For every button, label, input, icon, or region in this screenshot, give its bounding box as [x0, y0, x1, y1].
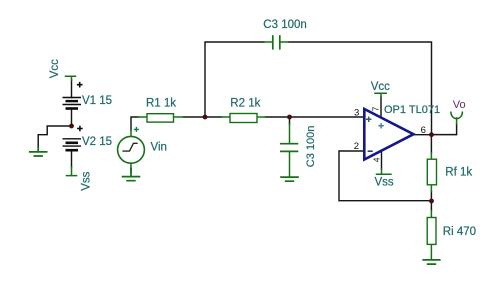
svg-text:2: 2	[354, 141, 359, 152]
svg-text:3: 3	[354, 108, 359, 119]
svg-text:R1 1k: R1 1k	[146, 97, 176, 109]
svg-text:6: 6	[421, 125, 426, 136]
svg-text:Vin: Vin	[151, 141, 167, 153]
svg-text:OP1 TL071: OP1 TL071	[384, 104, 440, 116]
svg-text:V2 15: V2 15	[82, 136, 112, 148]
svg-text:Vo: Vo	[453, 99, 466, 111]
svg-text:C3 100n: C3 100n	[263, 19, 306, 31]
svg-text:C3 100n: C3 100n	[305, 126, 317, 168]
svg-text:Vcc: Vcc	[49, 59, 61, 78]
svg-text:4: 4	[372, 157, 382, 162]
svg-text:Rf 1k: Rf 1k	[445, 166, 472, 178]
svg-text:Ri 470: Ri 470	[443, 226, 476, 238]
svg-text:Vcc: Vcc	[371, 81, 390, 93]
svg-text:V1 15: V1 15	[82, 95, 112, 107]
svg-text:R2 1k: R2 1k	[230, 97, 260, 109]
svg-text:7: 7	[371, 106, 381, 111]
svg-text:Vss: Vss	[80, 171, 92, 190]
svg-text:Vss: Vss	[375, 176, 394, 188]
